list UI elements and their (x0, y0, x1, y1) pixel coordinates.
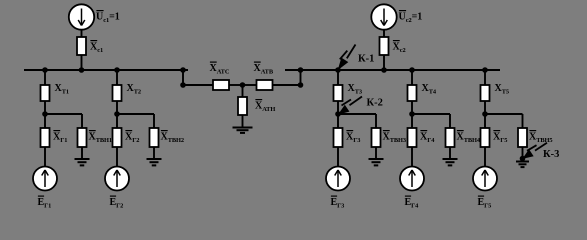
wire U2 to Xc2 (383, 30, 385, 37)
wire XATC to AT mid node (229, 84, 243, 86)
node 1 (42, 111, 48, 117)
node 3 (335, 111, 341, 117)
reactance XTVN2 (150, 128, 159, 147)
fault arrow K-2 (339, 97, 362, 114)
node 4 (409, 111, 415, 117)
ground TVN2 (147, 159, 162, 165)
bus left segment (24, 69, 188, 71)
svg-text:К-2: К-2 (367, 98, 383, 109)
EMF source EG5 (473, 167, 497, 191)
label EG1 (38, 195, 44, 197)
fault arrow K-3 (523, 143, 547, 158)
wire bus to XT1 (44, 70, 46, 85)
ground TVN3 (369, 159, 384, 165)
wire XG2 to EMF E2 (116, 147, 118, 167)
wire down to XTVN4 (449, 114, 451, 128)
label EG2 (110, 195, 116, 197)
wire down to XTVN5 (522, 114, 524, 128)
wire XTVN4 to ground (449, 147, 451, 159)
reactance XTVN1 (78, 128, 87, 147)
wire node 3 to TVN branch (338, 113, 376, 115)
source U2 (Uc2=1) (371, 4, 396, 29)
label XG5 (493, 130, 500, 132)
wire XTVN1 to ground (81, 147, 83, 159)
wire node 4 to XG4 (411, 114, 413, 128)
generator reactance XG3 (334, 128, 343, 147)
bus junction AT-right (298, 67, 304, 73)
wire bus to XT3 (337, 70, 339, 85)
label XG1 (53, 130, 60, 132)
EMF source EG2 (105, 167, 129, 191)
wire AT mid to XATB (243, 84, 257, 86)
bus junction AT-left (180, 67, 186, 73)
bus right segment (285, 69, 500, 71)
reactance XTVN3 (372, 128, 381, 147)
label XG2 (125, 130, 132, 132)
label XATH (255, 99, 262, 101)
label XATC (210, 61, 217, 63)
wire down to XTVN2 (153, 114, 155, 128)
transformer reactance XT1 (41, 85, 50, 101)
transformer reactance XT2 (113, 85, 122, 101)
generator reactance XG2 (113, 128, 122, 147)
label Xc2 (393, 40, 400, 42)
wire XG5 to EMF E5 (484, 147, 486, 167)
wire node 1 to XG1 (44, 114, 46, 128)
label EG3 (331, 195, 337, 197)
AT node right (298, 82, 304, 88)
generator reactance XG5 (481, 128, 490, 147)
wire XG3 to EMF E3 (337, 147, 339, 167)
wire XT4 to node 4 (411, 101, 413, 114)
wire node 5 to TVN branch (485, 113, 523, 115)
ground AT neutral (233, 128, 253, 133)
AT node left (180, 82, 186, 88)
wire XTVN3 to ground (375, 147, 377, 159)
wire Xc1 to bus (81, 55, 83, 70)
label XATB (254, 61, 261, 63)
wire XATB to AT right node (273, 84, 301, 86)
generator reactance XG4 (408, 128, 417, 147)
wire node 3 to XG3 (337, 114, 339, 128)
reactance Xc2 (380, 37, 389, 55)
bus junction T1 (42, 67, 48, 73)
ground TVN1 (75, 159, 90, 165)
label XTVN2 (161, 130, 168, 132)
label Xc1 (90, 40, 97, 42)
bus junction C1 (79, 67, 85, 73)
wire XTVN5 to K3 node (522, 147, 524, 158)
generator reactance XG1 (41, 128, 50, 147)
reactance XATC (213, 80, 229, 90)
wire AT mid down to XATH (242, 85, 244, 97)
bus junction T5 (482, 67, 488, 73)
wire XTVN2 to ground (153, 147, 155, 159)
wire XATH to ground (242, 115, 244, 128)
node 2 (114, 111, 120, 117)
label Uc2=1 (399, 10, 406, 12)
transformer reactance XT3 (334, 85, 343, 101)
wire node 2 to TVN branch (117, 113, 154, 115)
wire AT line to bus (right) (300, 70, 302, 85)
svg-text:К-3: К-3 (543, 149, 559, 160)
wire AT left to XATC (183, 84, 213, 86)
transformer reactance XT4 (408, 85, 417, 101)
transformer reactance XT5 (481, 85, 490, 101)
ground TVN4 (443, 159, 458, 165)
wire Xc2 to bus (383, 55, 385, 70)
wire XT2 to node 2 (116, 101, 118, 114)
label XG4 (420, 130, 427, 132)
wire node 5 to XG5 (484, 114, 486, 128)
label XG3 (346, 130, 353, 132)
reactance XATB (257, 80, 273, 90)
wire U1 to Xc1 (81, 30, 83, 37)
bus junction T2 (114, 67, 120, 73)
svg-text:К-1: К-1 (358, 54, 374, 65)
wire down to XTVN3 (375, 114, 377, 128)
EMF source EG4 (400, 167, 424, 191)
wire XT1 to node 1 (44, 101, 46, 114)
wire node 1 to TVN branch (45, 113, 82, 115)
label EG4 (405, 195, 411, 197)
reactance Xc1 (77, 37, 86, 55)
wire node 2 to XG2 (116, 114, 118, 128)
bus junction C2 (381, 67, 387, 73)
ground TVN5 (516, 162, 529, 168)
wire bus to XT5 (484, 70, 486, 85)
wire XT5 to node 5 (484, 101, 486, 114)
label XTVN1 (89, 130, 96, 132)
label Uc1=1 (96, 10, 103, 12)
EMF source EG1 (33, 167, 57, 191)
wire bus to XT2 (116, 70, 118, 85)
AT mid node (240, 82, 246, 88)
wire XG4 to EMF E4 (411, 147, 413, 167)
reactance XATH (238, 97, 247, 115)
label EG5 (478, 195, 484, 197)
node K3 (520, 156, 526, 162)
wire XG1 to EMF E1 (44, 147, 46, 167)
source U1 (Uc1=1) (69, 4, 94, 29)
label XTVN4 (457, 130, 464, 132)
reactance XTVN5 (518, 128, 527, 147)
label XTVN3 (383, 130, 390, 132)
EMF source EG3 (326, 167, 350, 191)
label XTVN5 (529, 130, 536, 132)
wire down to XTVN1 (81, 114, 83, 128)
bus junction T4 (409, 67, 415, 73)
reactance XTVN4 (446, 128, 455, 147)
wire node 4 to TVN branch (412, 113, 450, 115)
wire bus to AT line (left) (182, 70, 184, 85)
wire bus to XT4 (411, 70, 413, 85)
fault arrow K-1 (338, 45, 355, 70)
bus junction T3/K1 (335, 67, 341, 73)
node 5 (482, 111, 488, 117)
wire XT3 to node 3 (337, 101, 339, 114)
